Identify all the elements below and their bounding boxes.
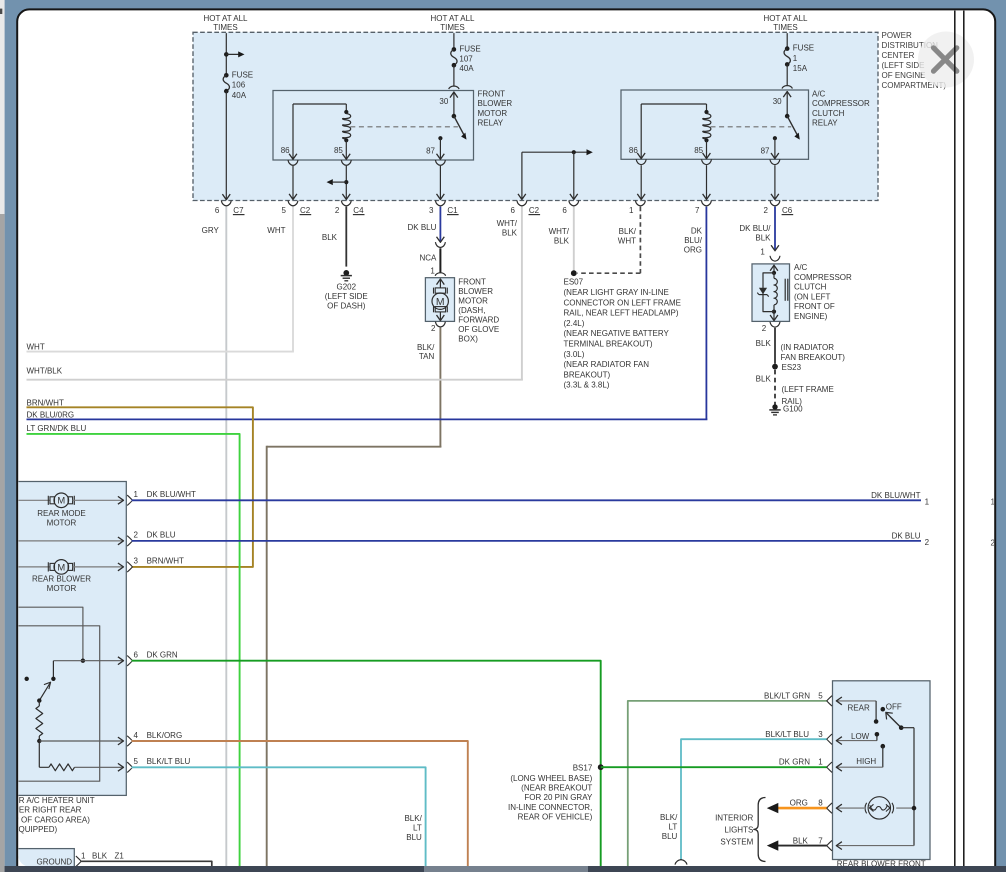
wire WHT/BLK (second, to splice ES07) xyxy=(573,207,575,272)
svg-text:DK BLU/: DK BLU/ xyxy=(739,224,771,233)
wire relay terminal to PDC border xyxy=(774,165,776,199)
svg-text:8: 8 xyxy=(818,798,823,807)
svg-text:DK BLU: DK BLU xyxy=(147,531,176,540)
svg-text:2: 2 xyxy=(925,538,930,547)
svg-text:2: 2 xyxy=(335,206,340,215)
svg-text:(DASH,: (DASH, xyxy=(458,306,485,315)
brace for interior lights system xyxy=(754,798,766,862)
svg-text:R A/C HEATER UNIT: R A/C HEATER UNIT xyxy=(19,796,95,805)
svg-text:(3.3L & 3.8L): (3.3L & 3.8L) xyxy=(564,381,610,390)
relay coil xyxy=(641,103,706,105)
rear blower motor M3 xyxy=(18,566,50,568)
outer left gray strip xyxy=(0,0,5,872)
connector pin 3 BRN/WHT of rear A/C heater unit xyxy=(127,562,132,572)
svg-text:DK GRN: DK GRN xyxy=(779,757,810,766)
fuse F107 (FUSE 107 40A) xyxy=(452,47,457,52)
svg-text:WHT: WHT xyxy=(27,343,45,352)
switch row HIGH xyxy=(881,744,886,749)
wire from NCA to front blower motor pin 1 xyxy=(439,248,441,272)
svg-text:5: 5 xyxy=(134,757,139,766)
svg-text:FORWARD: FORWARD xyxy=(458,316,499,325)
svg-text:1: 1 xyxy=(81,851,86,860)
svg-text:BLK/LT GRN: BLK/LT GRN xyxy=(764,691,810,700)
svg-text:2: 2 xyxy=(431,324,436,333)
svg-text:6: 6 xyxy=(562,206,567,215)
wire LT GRN/DK BLU xyxy=(27,434,240,866)
wire fuse 1 to relay terminal 30 xyxy=(786,64,788,85)
svg-text:WHT: WHT xyxy=(618,237,636,246)
wire relay terminal to PDC border xyxy=(345,166,347,199)
svg-text:OF ENGINE: OF ENGINE xyxy=(882,71,926,80)
svg-text:P OF CARGO AREA): P OF CARGO AREA) xyxy=(14,816,91,825)
svg-text:ES07: ES07 xyxy=(564,278,584,287)
svg-text:BLK/LT BLU: BLK/LT BLU xyxy=(765,730,809,739)
svg-text:BLOWER: BLOWER xyxy=(458,287,493,296)
front blower motor M1 xyxy=(425,278,454,322)
svg-text:6: 6 xyxy=(215,206,220,215)
svg-text:IN-LINE CONNECTOR,: IN-LINE CONNECTOR, xyxy=(508,803,592,812)
ground box xyxy=(0,849,74,872)
svg-text:6: 6 xyxy=(134,651,139,660)
svg-text:HIGH: HIGH xyxy=(856,757,876,766)
svg-text:FUSE: FUSE xyxy=(793,44,814,53)
svg-text:BLK: BLK xyxy=(554,237,570,246)
switch row REAR xyxy=(836,700,876,702)
wire BLK (C4-2) to ground G202 xyxy=(345,207,347,267)
svg-text:DK: DK xyxy=(691,227,703,236)
wire BLK Z1 xyxy=(80,861,212,866)
A/C compressor clutch xyxy=(752,264,790,322)
svg-text:BLK: BLK xyxy=(322,233,338,242)
svg-text:WHT/: WHT/ xyxy=(497,219,518,228)
connector pin 6 C7 at PDC border xyxy=(221,201,231,206)
relay terminal 87 xyxy=(438,136,442,140)
relay mechanical link (dashed) xyxy=(711,126,792,128)
svg-text:DK BLU/WHT: DK BLU/WHT xyxy=(147,490,196,499)
svg-text:3: 3 xyxy=(818,730,823,739)
ground G202 xyxy=(343,270,349,276)
wire BLK/TAN from motor pin 2 xyxy=(439,328,441,447)
svg-text:COMPRESSOR: COMPRESSOR xyxy=(812,99,870,108)
wire WHT/BLK drop 2 inside PDC xyxy=(573,152,575,199)
svg-text:INTERIOR: INTERIOR xyxy=(715,814,753,823)
svg-text:M: M xyxy=(57,495,65,506)
svg-text:1: 1 xyxy=(760,248,765,257)
wire fuse 106 to connector C7 xyxy=(225,91,227,199)
svg-text:CONNECTOR ON LEFT FRAME: CONNECTOR ON LEFT FRAME xyxy=(564,298,682,307)
connector pin 1 BLK Z1 of ground box xyxy=(76,856,81,866)
svg-text:DK BLU: DK BLU xyxy=(892,532,921,541)
wire fuse 107 to relay terminal 30 xyxy=(453,65,455,86)
svg-text:107: 107 xyxy=(459,54,473,63)
svg-text:SYSTEM: SYSTEM xyxy=(720,838,753,847)
svg-text:G100: G100 xyxy=(783,405,803,414)
svg-text:(NEAR BREAKOUT: (NEAR BREAKOUT xyxy=(521,784,592,793)
splice on WHT/BLK feeder xyxy=(572,150,576,154)
connector pin 2 DK BLU of rear A/C heater unit xyxy=(127,536,132,546)
switch row 7 (BLK) xyxy=(836,845,914,847)
svg-text:ORG: ORG xyxy=(684,246,702,255)
svg-text:NCA: NCA xyxy=(420,254,438,263)
svg-text:BLK: BLK xyxy=(793,837,809,846)
clutch core lines xyxy=(784,279,786,301)
svg-text:RAIL, NEAR LEFT HEADLAMP): RAIL, NEAR LEFT HEADLAMP) xyxy=(564,309,679,318)
blower switch arm xyxy=(39,682,50,700)
relay terminal 30 connector bump xyxy=(782,86,792,89)
switch common feed wire xyxy=(913,728,915,846)
svg-text:1: 1 xyxy=(629,206,634,215)
svg-text:A/C: A/C xyxy=(812,90,826,99)
svg-text:COMPRESSOR: COMPRESSOR xyxy=(794,273,852,282)
svg-text:HOT AT ALL: HOT AT ALL xyxy=(203,14,248,23)
svg-text:TIMES: TIMES xyxy=(440,23,464,32)
svg-text:87: 87 xyxy=(761,147,770,156)
wire BLK/LT BLU (pin 5) xyxy=(132,767,426,866)
svg-text:(LEFT SIDE: (LEFT SIDE xyxy=(882,61,925,70)
relay box: FRONT BLOWER relay xyxy=(273,91,474,161)
wire BLK/LT GRN (pin 5) xyxy=(628,701,828,866)
svg-text:FUSE: FUSE xyxy=(232,71,253,80)
relay coil xyxy=(293,103,346,105)
wire DK BLU (pin 2) xyxy=(132,540,922,542)
relay switch arm xyxy=(454,116,465,136)
svg-text:5: 5 xyxy=(282,206,287,215)
svg-text:40A: 40A xyxy=(459,64,474,73)
svg-text:2: 2 xyxy=(762,324,767,333)
svg-text:C2: C2 xyxy=(300,206,311,215)
svg-text:REAR OF VEHICLE): REAR OF VEHICLE) xyxy=(518,812,593,821)
svg-text:REAR MODE: REAR MODE xyxy=(37,509,85,518)
svg-text:PER RIGHT REAR: PER RIGHT REAR xyxy=(14,806,82,815)
svg-text:4: 4 xyxy=(134,731,139,740)
wire BRN/WHT xyxy=(27,407,253,567)
connector pin 6 DK GRN of rear A/C heater unit xyxy=(127,656,132,666)
svg-text:TERMINAL BREAKOUT): TERMINAL BREAKOUT) xyxy=(564,340,653,349)
fuse F106 (FUSE 106 40A) xyxy=(224,73,229,78)
left strip scrollbar thumb xyxy=(0,214,5,872)
svg-text:BLK/LT BLU: BLK/LT BLU xyxy=(147,757,191,766)
svg-text:LT: LT xyxy=(413,824,422,833)
svg-text:CENTER: CENTER xyxy=(882,51,915,60)
wire from HOT AT ALL TIMES to fuse 107 xyxy=(453,33,455,49)
connector pin 1 at PDC border xyxy=(635,201,645,206)
wire BLK (pin 7) to interior lights xyxy=(778,845,828,847)
svg-text:TIMES: TIMES xyxy=(773,23,797,32)
svg-text:BOX): BOX) xyxy=(458,335,478,344)
connector pin 6 at PDC border xyxy=(569,201,579,206)
wire BLK from clutch pin 2 xyxy=(774,328,776,364)
svg-text:(2.4L): (2.4L) xyxy=(564,319,585,328)
connector pin 5 BLK/LT BLU of rear A/C heater unit xyxy=(127,762,132,772)
svg-text:BLK/: BLK/ xyxy=(660,813,678,822)
svg-text:BRN/WHT: BRN/WHT xyxy=(27,399,64,408)
svg-text:MOTOR: MOTOR xyxy=(47,584,77,593)
svg-text:C6: C6 xyxy=(782,206,793,215)
svg-text:(LEFT FRAME: (LEFT FRAME xyxy=(782,385,834,394)
wire relay terminal to PDC border xyxy=(706,165,708,199)
svg-text:BLU: BLU xyxy=(662,832,678,841)
relay switch arm xyxy=(787,116,798,136)
svg-text:BLK: BLK xyxy=(756,375,772,384)
svg-text:RELAY: RELAY xyxy=(478,119,504,128)
diagram page border line 1 xyxy=(954,11,956,866)
svg-text:5: 5 xyxy=(818,691,823,700)
svg-text:TAN: TAN xyxy=(419,352,435,361)
wire row 6 inside rear unit xyxy=(53,660,122,662)
svg-text:FRONT: FRONT xyxy=(478,90,506,99)
wire relay terminal to PDC border xyxy=(292,166,294,199)
wire from HOT AT ALL TIMES to fuse 106 xyxy=(225,33,227,75)
relay terminal 30 connector bump xyxy=(449,86,459,89)
wire DK BLU/WHT (pin 1) xyxy=(132,499,922,501)
svg-text:OF DASH): OF DASH) xyxy=(327,302,366,311)
svg-text:LOW: LOW xyxy=(851,732,870,741)
wire ORG (pin 8) to interior lights xyxy=(778,807,828,810)
svg-text:BLK: BLK xyxy=(756,339,772,348)
svg-text:BLK/: BLK/ xyxy=(404,814,422,823)
connector pin 4 BLK/ORG of rear A/C heater unit xyxy=(127,736,132,746)
svg-text:OFF: OFF xyxy=(886,703,902,712)
branch arrow on BLK wire inside PDC xyxy=(344,180,348,184)
wire WHT (C2-5) xyxy=(292,207,294,352)
svg-text:1: 1 xyxy=(134,490,139,499)
wire relay terminal to PDC border xyxy=(640,165,642,199)
bottom scrollbar thumb xyxy=(424,866,588,872)
wire WHT/BLK (C2-6 first) xyxy=(521,207,523,380)
rear blower front switch box xyxy=(833,681,931,860)
svg-text:BLK/ORG: BLK/ORG xyxy=(147,731,183,740)
svg-text:C2: C2 xyxy=(529,206,540,215)
connector pin 3 C1 at PDC border xyxy=(435,201,445,206)
svg-text:6: 6 xyxy=(510,206,515,215)
rear A/C heater unit box xyxy=(0,482,126,796)
svg-text:7: 7 xyxy=(695,206,700,215)
splice ES07 xyxy=(571,270,577,276)
svg-text:MOTOR: MOTOR xyxy=(478,109,508,118)
lamp filament xyxy=(869,804,873,811)
svg-text:WHT: WHT xyxy=(267,226,285,235)
svg-text:BLK: BLK xyxy=(755,233,771,242)
connector pin 7 at PDC border xyxy=(701,201,711,206)
relay mechanical link (dashed) xyxy=(350,126,458,128)
svg-text:BLK: BLK xyxy=(92,851,108,860)
svg-text:Z1: Z1 xyxy=(115,851,125,860)
svg-text:86: 86 xyxy=(629,146,638,155)
close button xyxy=(918,32,974,88)
connector pin 2 C6 at PDC border xyxy=(770,201,780,206)
svg-text:CLUTCH: CLUTCH xyxy=(794,283,827,292)
diagram page border line 2 xyxy=(963,11,965,866)
switch row LOW xyxy=(836,740,877,742)
svg-text:1: 1 xyxy=(430,267,435,276)
splice BS17 xyxy=(598,764,604,770)
svg-text:MOTOR: MOTOR xyxy=(458,297,488,306)
svg-text:TIMES: TIMES xyxy=(213,23,237,32)
in-line connector at bottom of BLK/LT BLU xyxy=(675,860,687,865)
svg-text:LT GRN/DK BLU: LT GRN/DK BLU xyxy=(27,424,87,433)
svg-text:BS17: BS17 xyxy=(573,764,593,773)
svg-text:FRONT: FRONT xyxy=(458,278,486,287)
svg-text:87: 87 xyxy=(426,147,435,156)
svg-text:2: 2 xyxy=(764,206,769,215)
svg-text:BLOWER: BLOWER xyxy=(478,99,513,108)
svg-text:POWER: POWER xyxy=(882,31,912,40)
clutch coil xyxy=(773,273,775,279)
rear unit internal feed wires xyxy=(18,607,83,661)
svg-text:BLK/: BLK/ xyxy=(417,343,435,352)
svg-text:(LONG WHEEL BASE): (LONG WHEEL BASE) xyxy=(510,774,592,783)
svg-text:C7: C7 xyxy=(233,206,244,215)
svg-text:ENGINE): ENGINE) xyxy=(794,312,828,321)
svg-text:BREAKOUT): BREAKOUT) xyxy=(564,370,611,379)
svg-text:FAN BREAKOUT): FAN BREAKOUT) xyxy=(781,353,846,362)
svg-text:LIGHTS: LIGHTS xyxy=(724,826,753,835)
svg-text:BLK: BLK xyxy=(502,229,518,238)
wire BLK/LT BLU (pin 3) xyxy=(681,739,827,860)
svg-text:85: 85 xyxy=(694,146,703,155)
branch arrow right of fuse 106 feed xyxy=(224,52,229,57)
wire relay terminal to PDC border xyxy=(439,166,441,199)
svg-text:85: 85 xyxy=(334,146,343,155)
svg-text:GRY: GRY xyxy=(202,226,220,235)
connector pin 2 C4 at PDC border xyxy=(341,201,351,206)
svg-text:BRN/WHT: BRN/WHT xyxy=(147,557,184,566)
wire WHT/BLK drop 1 inside PDC xyxy=(521,152,523,199)
svg-text:30: 30 xyxy=(439,97,448,106)
wire DK GRN (pin 1) from BS17 xyxy=(601,766,828,768)
svg-text:(NEAR RADIATOR FAN: (NEAR RADIATOR FAN xyxy=(564,360,650,369)
svg-text:15A: 15A xyxy=(793,64,808,73)
svg-text:A/C: A/C xyxy=(794,263,808,272)
svg-text:G202: G202 xyxy=(337,283,357,292)
fuse F1 (FUSE 1 15A) xyxy=(785,46,790,51)
svg-text:FUSE: FUSE xyxy=(459,45,480,54)
wire row 2 inside rear unit xyxy=(18,540,122,542)
svg-text:86: 86 xyxy=(281,146,290,155)
in-line connector NCA xyxy=(437,237,445,243)
svg-text:2: 2 xyxy=(134,531,139,540)
wire BLK/ORG (pin 4) xyxy=(132,741,468,866)
clutch diode branch xyxy=(763,273,774,312)
svg-text:3: 3 xyxy=(134,557,139,566)
svg-text:C1: C1 xyxy=(447,206,458,215)
svg-text:30: 30 xyxy=(773,97,782,106)
svg-text:(LEFT SIDE: (LEFT SIDE xyxy=(325,292,368,301)
splice in rear unit (row 6) xyxy=(81,659,85,663)
svg-text:DK BLU: DK BLU xyxy=(407,223,436,232)
wire GRY (C7-6) xyxy=(225,207,227,866)
wire DK BLU/ORG (pin 7) xyxy=(705,207,707,420)
connector pin 6 C2 at PDC border xyxy=(517,201,527,206)
svg-text:WHT/: WHT/ xyxy=(549,227,570,236)
blower switch contact dots xyxy=(51,677,55,681)
svg-text:(IN RADIATOR: (IN RADIATOR xyxy=(781,343,835,352)
svg-text:1: 1 xyxy=(793,54,798,63)
svg-text:LT: LT xyxy=(669,823,678,832)
svg-text:WHT/BLK: WHT/BLK xyxy=(27,367,63,376)
svg-text:DK BLU/WHT: DK BLU/WHT xyxy=(871,491,920,500)
wire row 4 inside rear unit xyxy=(39,740,122,742)
svg-text:EQUIPPED): EQUIPPED) xyxy=(13,825,57,834)
svg-text:40A: 40A xyxy=(232,91,247,100)
svg-text:106: 106 xyxy=(232,81,246,90)
blower resistor (vertical) xyxy=(38,701,40,706)
svg-text:(NEAR LIGHT GRAY IN-LINE: (NEAR LIGHT GRAY IN-LINE xyxy=(564,288,669,297)
power distribution center dashed box xyxy=(193,32,878,200)
connector pin 5 C2 at PDC border xyxy=(288,201,298,206)
svg-text:RELAY: RELAY xyxy=(812,119,838,128)
svg-text:FOR 20 PIN GRAY: FOR 20 PIN GRAY xyxy=(524,793,593,802)
svg-text:(ON LEFT: (ON LEFT xyxy=(794,292,831,301)
svg-text:(3.0L): (3.0L) xyxy=(564,350,585,359)
svg-text:C4: C4 xyxy=(353,206,364,215)
ground G100 xyxy=(772,404,777,409)
wire BLK/WHT dashed from pin 1 to ES07 xyxy=(639,207,641,274)
svg-text:M: M xyxy=(57,561,65,572)
wire WHT/BLK feeder inside PDC xyxy=(522,151,588,153)
blower resistor (horizontal, row 5) xyxy=(39,766,49,768)
svg-text:1: 1 xyxy=(818,757,823,766)
relay box: A/C COMPRESSOR relay xyxy=(621,90,809,159)
wire DK BLU/BLK (C6-2) xyxy=(774,207,776,251)
illumination lamp xyxy=(836,807,864,809)
wire DK BLU (C1-3) xyxy=(439,207,441,242)
svg-text:MOTOR: MOTOR xyxy=(47,519,77,528)
svg-text:DK BLU/0RG: DK BLU/0RG xyxy=(27,410,75,419)
switch position OFF xyxy=(881,707,886,712)
svg-text:DK GRN: DK GRN xyxy=(147,651,178,660)
svg-text:FRONT OF: FRONT OF xyxy=(794,302,835,311)
svg-text:HOT AT ALL: HOT AT ALL xyxy=(430,14,475,23)
svg-text:1: 1 xyxy=(925,498,930,507)
svg-text:REAR BLOWER: REAR BLOWER xyxy=(32,575,91,584)
wire DK GRN (pin 6) xyxy=(132,661,601,866)
svg-text:ES23: ES23 xyxy=(782,363,802,372)
svg-text:BLU: BLU xyxy=(406,833,422,842)
svg-text:BLU/: BLU/ xyxy=(684,236,703,245)
svg-text:OF GLOVE: OF GLOVE xyxy=(458,325,499,334)
svg-text:(NEAR NEGATIVE BATTERY: (NEAR NEGATIVE BATTERY xyxy=(564,329,670,338)
svg-text:HOT AT ALL: HOT AT ALL xyxy=(763,14,808,23)
connector pin 1 DK BLU/WHT of rear A/C heater unit xyxy=(127,495,132,505)
wire BLK dashed to G100 xyxy=(774,370,776,405)
svg-text:GROUND: GROUND xyxy=(37,858,73,867)
left strip tick xyxy=(0,9,2,14)
svg-text:7: 7 xyxy=(818,837,823,846)
svg-text:3: 3 xyxy=(429,206,434,215)
svg-text:CLUTCH: CLUTCH xyxy=(812,109,845,118)
bottom scrollbar track xyxy=(5,866,1006,872)
switch arm (rear blower switch) xyxy=(886,713,901,728)
rear mode motor M2 xyxy=(18,499,50,501)
svg-text:REAR: REAR xyxy=(848,703,870,712)
svg-text:BLK/: BLK/ xyxy=(619,227,637,236)
svg-text:ORG: ORG xyxy=(790,798,808,807)
splice ES23 xyxy=(772,364,778,370)
wire from HOT AT ALL TIMES to fuse 1 xyxy=(786,33,788,49)
relay terminal 87 xyxy=(773,136,777,140)
